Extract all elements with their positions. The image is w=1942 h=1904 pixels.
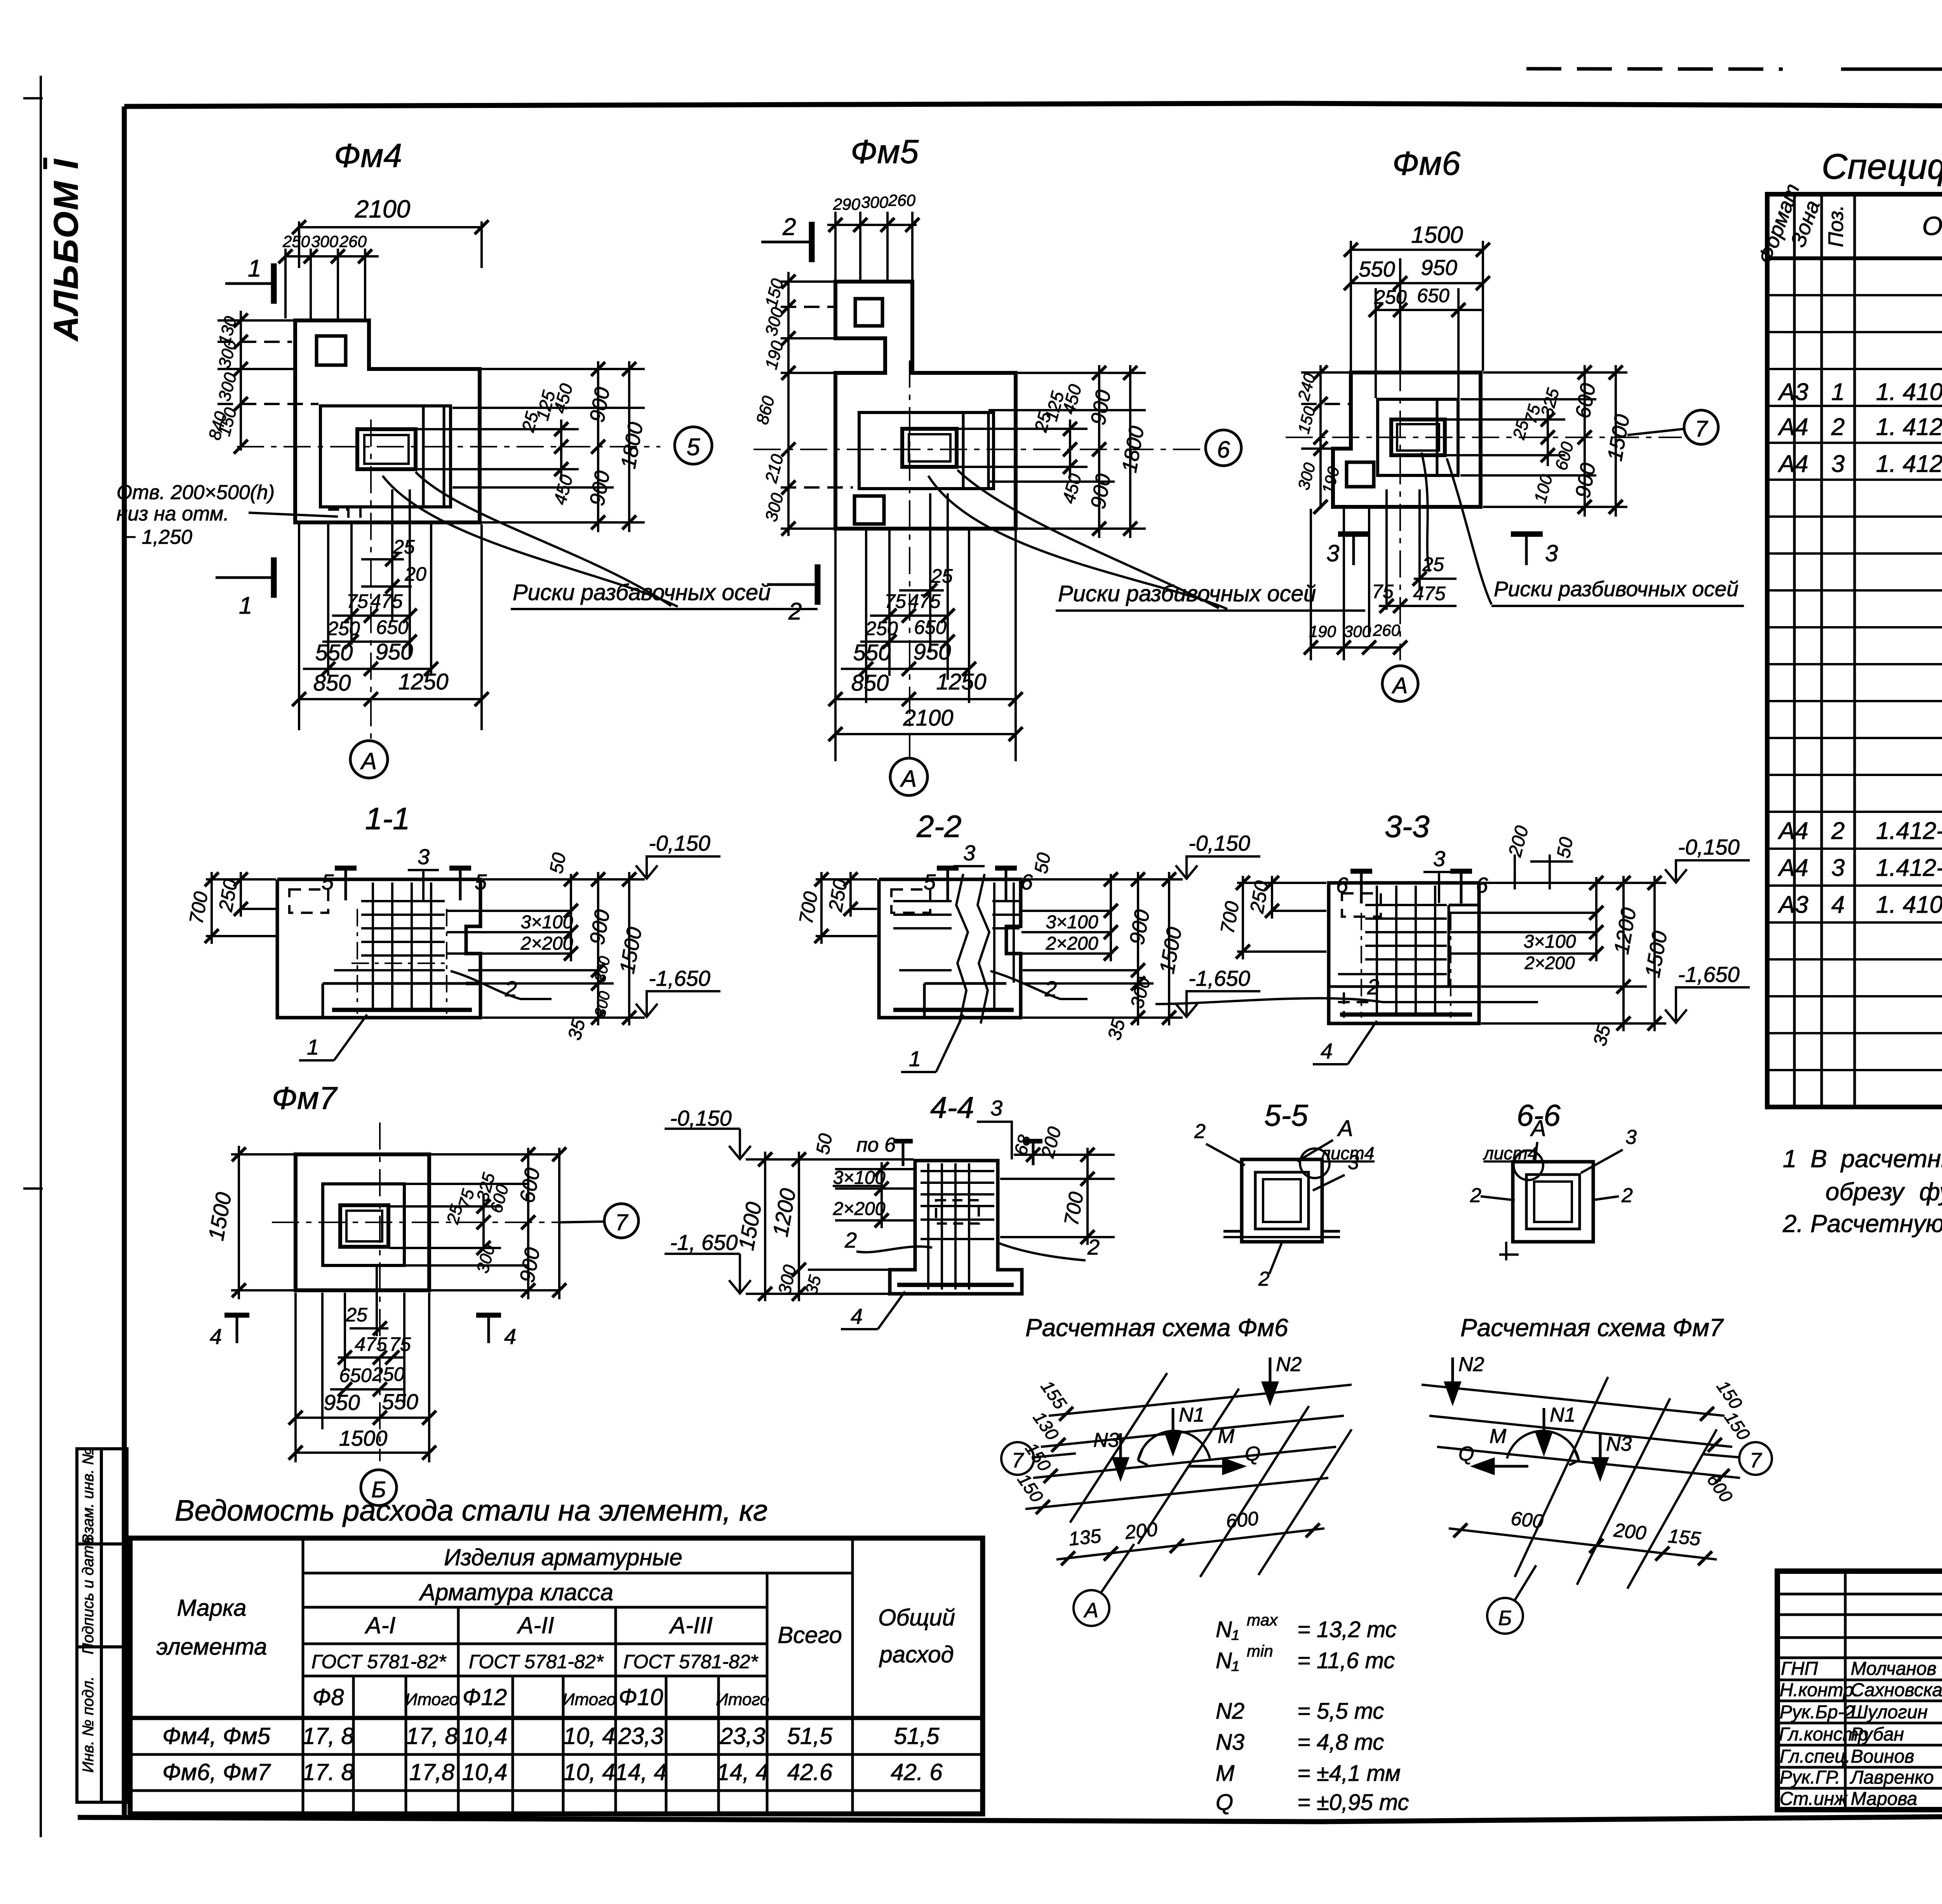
- svg-text:Риски разбивочных осей: Риски разбивочных осей: [1058, 581, 1316, 606]
- 5 flags: [345, 867, 347, 900]
- svg-text:250: 250: [282, 232, 310, 251]
- svg-text:1: 1: [307, 1035, 319, 1059]
- svg-text:лист4: лист4: [1319, 1143, 1374, 1163]
- svg-text:51,5: 51,5: [787, 1723, 833, 1749]
- column pocket: [902, 429, 957, 467]
- svg-text:14, 4: 14, 4: [615, 1759, 666, 1785]
- svg-text:3: 3: [418, 844, 430, 869]
- section outline: [1329, 883, 1479, 1023]
- svg-text:650: 650: [376, 616, 409, 638]
- svg-text:1. 412-1/77, вып.3: 1. 412-1/77, вып.3: [1876, 414, 1942, 440]
- section mark 1 top: [225, 282, 272, 285]
- axis circle 7: [604, 1204, 639, 1238]
- section marks 4: [236, 1314, 238, 1343]
- svg-text:7: 7: [1695, 416, 1709, 442]
- svg-text:Q: Q: [1245, 1443, 1260, 1465]
- break lines: [956, 874, 968, 1023]
- svg-text:950: 950: [914, 639, 951, 665]
- svg-text:= 13,2 тс: = 13,2 тс: [1297, 1617, 1397, 1642]
- svg-text:3: 3: [1545, 540, 1558, 566]
- column pocket: [340, 1205, 388, 1247]
- 1500 1200 dims: [765, 1152, 888, 1301]
- svg-text:50: 50: [546, 851, 570, 875]
- svg-text:2100: 2100: [903, 705, 953, 731]
- rebar mesh: [334, 882, 445, 1010]
- svg-text:2: 2: [782, 214, 796, 240]
- svg-text:550: 550: [853, 640, 891, 665]
- svg-text:850: 850: [313, 670, 351, 696]
- svg-text:Фм5: Фм5: [851, 133, 919, 171]
- svg-text:N2: N2: [1458, 1353, 1484, 1376]
- left dims: [206, 872, 276, 944]
- svg-text:Ведомость расхода стали н: Ведомость расхода стали на элемент, кг: [175, 1494, 767, 1527]
- svg-text:23,3: 23,3: [618, 1723, 664, 1749]
- svg-text:5-5: 5-5: [1264, 1098, 1308, 1132]
- grid lines: [1422, 1385, 1740, 1478]
- load arrows: [1114, 1358, 1277, 1478]
- svg-text:25: 25: [931, 565, 953, 587]
- section outline: [890, 1161, 1022, 1294]
- svg-text:А: А: [1083, 1599, 1098, 1622]
- svg-text:Взам. инв. №: Взам. инв. №: [80, 1448, 97, 1544]
- svg-text:2: 2: [1258, 1268, 1270, 1290]
- svg-text:17, 8: 17, 8: [302, 1723, 354, 1749]
- step rectangle: [1378, 399, 1458, 475]
- svg-text:Сахновская: Сахновская: [1851, 1680, 1942, 1700]
- centerlines: [237, 419, 660, 741]
- svg-text:5: 5: [475, 870, 487, 894]
- svg-text:= 4,8 тс: = 4,8 тс: [1297, 1730, 1384, 1755]
- dashed pocket: [936, 1200, 979, 1224]
- svg-text:Расчетная схема Фм6: Расчетная схема Фм6: [1025, 1314, 1288, 1342]
- right dims: [1449, 855, 1666, 1031]
- svg-text:Воинов: Воинов: [1851, 1746, 1914, 1767]
- svg-text:5: 5: [687, 434, 700, 461]
- bottom dims Фм5: [835, 493, 1016, 761]
- svg-text:Фм6, Фм7: Фм6, Фм7: [162, 1759, 271, 1785]
- section outline: [277, 879, 480, 983]
- svg-text:42. 6: 42. 6: [891, 1759, 943, 1785]
- svg-text:2: 2: [788, 598, 802, 625]
- right dims: [1700, 1407, 1714, 1421]
- bottom dims Фм6: [1311, 489, 1456, 660]
- svg-text:N1: N1: [1179, 1404, 1204, 1426]
- svg-text:min: min: [1247, 1642, 1273, 1660]
- square hole: [317, 336, 346, 365]
- svg-text:1500: 1500: [1411, 222, 1463, 248]
- svg-text:50: 50: [1031, 851, 1055, 875]
- svg-text:3: 3: [1831, 855, 1845, 881]
- svg-text:Итого: Итого: [716, 1690, 769, 1709]
- svg-text:расход: расход: [879, 1641, 954, 1667]
- svg-text:250: 250: [327, 618, 360, 639]
- svg-text:260: 260: [888, 191, 916, 209]
- svg-text:Гл.спец.: Гл.спец.: [1780, 1746, 1850, 1767]
- svg-text:Н.контр.: Н.контр.: [1780, 1680, 1858, 1700]
- svg-text:Рук.ГР.: Рук.ГР.: [1780, 1767, 1840, 1788]
- svg-text:600: 600: [1225, 1507, 1260, 1532]
- svg-text:2×200: 2×200: [1046, 933, 1098, 954]
- svg-text:10,4: 10,4: [462, 1759, 508, 1785]
- svg-text:75: 75: [389, 1333, 411, 1355]
- svg-text:25: 25: [393, 536, 415, 558]
- grid lines (long): [1025, 1385, 1352, 1509]
- slanted lines: [1515, 1377, 1717, 1589]
- svg-text:М: М: [1218, 1425, 1235, 1448]
- svg-text:950: 950: [376, 639, 413, 665]
- section mark 2 top: [761, 241, 810, 244]
- svg-text:14, 4: 14, 4: [717, 1759, 768, 1785]
- svg-text:51,5: 51,5: [894, 1723, 940, 1749]
- centerlines: [753, 360, 1200, 758]
- svg-text:Ф10: Ф10: [619, 1684, 663, 1710]
- svg-text:Б: Б: [1498, 1606, 1512, 1630]
- svg-text:3: 3: [1433, 846, 1445, 871]
- svg-text:10, 4: 10, 4: [563, 1759, 615, 1785]
- svg-text:-1,650: -1,650: [649, 966, 710, 990]
- svg-text:6: 6: [1476, 873, 1488, 897]
- svg-text:3: 3: [1326, 540, 1339, 566]
- svg-text:75: 75: [1372, 581, 1394, 602]
- Отв. note: [117, 481, 275, 548]
- svg-text:4: 4: [504, 1324, 516, 1349]
- right dims: [447, 872, 645, 1025]
- svg-text:1.412-1/77, вып.3: 1.412-1/77, вып.3: [1876, 855, 1942, 881]
- bottom dims: [296, 1266, 429, 1462]
- dashed pocket: [1342, 893, 1381, 917]
- svg-text:Риски разбивочных осей: Риски разбивочных осей: [1494, 577, 1738, 601]
- svg-text:2: 2: [844, 1228, 857, 1252]
- svg-text:850: 850: [851, 670, 889, 696]
- svg-text:-0,150: -0,150: [670, 1106, 732, 1130]
- svg-text:Шулогин: Шулогин: [1851, 1702, 1928, 1723]
- plan outline: [296, 1154, 429, 1290]
- square hole top: [855, 299, 882, 326]
- svg-text:-1,650: -1,650: [1189, 966, 1250, 990]
- svg-text:17,8: 17,8: [409, 1759, 455, 1785]
- svg-text:5: 5: [924, 870, 936, 894]
- svg-text:600: 600: [1510, 1507, 1544, 1532]
- svg-text:75: 75: [884, 590, 906, 612]
- notes text: [1782, 1145, 1942, 1237]
- svg-text:10, 4: 10, 4: [563, 1723, 615, 1749]
- column pocket: [1391, 419, 1445, 455]
- right dims: [390, 1148, 559, 1299]
- svg-text:155: 155: [1667, 1525, 1702, 1550]
- axis circle 7: [1703, 1454, 1739, 1457]
- svg-text:Общий: Общий: [878, 1605, 955, 1631]
- svg-text:Марка: Марка: [177, 1595, 246, 1621]
- 5 flags: [947, 867, 949, 900]
- svg-text:Ф8: Ф8: [312, 1684, 344, 1710]
- svg-text:300: 300: [311, 232, 339, 251]
- svg-text:6: 6: [1217, 437, 1230, 463]
- svg-text:550: 550: [315, 640, 353, 665]
- left dims: [781, 272, 853, 536]
- svg-text:Всего: Всего: [778, 1622, 842, 1648]
- АЛЬБОМ I vertical label: [47, 158, 85, 341]
- svg-text:650: 650: [914, 616, 947, 638]
- svg-text:1. 410-3. вып.1: 1. 410-3. вып.1: [1876, 379, 1942, 406]
- section outline: [879, 879, 1021, 983]
- svg-text:2×200: 2×200: [833, 1199, 886, 1219]
- 700 right dim: [1000, 1148, 1115, 1245]
- svg-text:М: М: [1490, 1425, 1507, 1448]
- svg-text:1: 1: [248, 255, 261, 282]
- square hole bottom: [854, 496, 884, 524]
- step rectangle: [320, 406, 451, 507]
- section mark 3 left: [1352, 533, 1355, 565]
- svg-text:1: 1: [1831, 379, 1845, 406]
- svg-text:Расчетная схема Фм7: Расчетная схема Фм7: [1460, 1314, 1724, 1342]
- svg-text:А: А: [1337, 1116, 1353, 1141]
- svg-text:N3: N3: [1216, 1730, 1244, 1755]
- svg-text:= ±4,1 тм: = ±4,1 тм: [1297, 1761, 1401, 1786]
- axis circle 5: [675, 427, 712, 464]
- svg-text:А-III: А-III: [669, 1612, 713, 1638]
- svg-text:Марова: Марова: [1851, 1789, 1917, 1809]
- svg-text:2: 2: [1194, 1120, 1206, 1143]
- svg-text:1: 1: [909, 1046, 921, 1071]
- svg-text:20: 20: [404, 563, 426, 585]
- svg-text:2: 2: [1831, 414, 1845, 440]
- svg-text:= 5,5 тс: = 5,5 тс: [1297, 1699, 1384, 1724]
- svg-text:7: 7: [1750, 1449, 1762, 1472]
- svg-text:элемента: элемента: [157, 1634, 267, 1660]
- svg-text:3×100: 3×100: [521, 912, 573, 933]
- svg-text:75: 75: [346, 590, 368, 612]
- svg-text:А4: А4: [1777, 451, 1808, 477]
- bottom dim slanted: [1449, 1528, 1717, 1559]
- svg-text:42.6: 42.6: [787, 1759, 833, 1785]
- svg-text:475: 475: [355, 1333, 387, 1355]
- slanted lines: [1070, 1373, 1352, 1577]
- spec header texts: [1754, 181, 1848, 267]
- svg-text:2: 2: [1470, 1184, 1481, 1207]
- svg-text:2: 2: [1831, 818, 1845, 844]
- right dims: [1021, 872, 1183, 1025]
- svg-text:А: А: [1392, 673, 1408, 698]
- sheet left margin line: [23, 76, 43, 1837]
- section mark 1 bottom: [216, 576, 272, 579]
- svg-text:1 В расчетных схемах даны нор: 1 В расчетных схемах даны нормативные на…: [1783, 1145, 1942, 1173]
- axis circle А: [1074, 1590, 1109, 1626]
- right dims: [959, 365, 1146, 538]
- svg-text:М: М: [1216, 1761, 1235, 1786]
- svg-text:6: 6: [1336, 873, 1349, 897]
- svg-text:N2: N2: [1276, 1353, 1302, 1376]
- svg-text:ГОСТ 5781-82*: ГОСТ 5781-82*: [469, 1651, 604, 1673]
- section mark 3 right: [1525, 533, 1528, 565]
- pocket ring: [1513, 1162, 1593, 1242]
- svg-text:Фм4, Фм5: Фм4, Фм5: [162, 1723, 270, 1749]
- svg-text:550: 550: [1359, 257, 1395, 281]
- axis circle A: [890, 758, 927, 795]
- svg-text:50: 50: [1553, 835, 1577, 860]
- svg-text:2100: 2100: [355, 195, 411, 223]
- svg-text:1: 1: [239, 592, 252, 619]
- plan outline: [1333, 372, 1481, 507]
- svg-text:N3: N3: [1606, 1433, 1632, 1455]
- svg-text:200: 200: [1612, 1519, 1647, 1544]
- right dims: [1447, 365, 1627, 517]
- left sidebar stamp boxes: [77, 1449, 127, 1802]
- svg-text:7: 7: [615, 1210, 629, 1235]
- svg-text:Итого: Итого: [405, 1690, 459, 1709]
- rebar: [893, 882, 1020, 1010]
- svg-text:50: 50: [813, 1132, 837, 1156]
- svg-text:3: 3: [1348, 1151, 1359, 1174]
- pocket ring: [1242, 1159, 1322, 1242]
- svg-text:Подпись и дата: Подпись и дата: [80, 1537, 97, 1655]
- svg-text:3×100: 3×100: [1046, 912, 1098, 933]
- svg-text:2: 2: [1621, 1184, 1633, 1207]
- svg-text:Поз.: Поз.: [1824, 205, 1848, 247]
- svg-text:N2: N2: [1216, 1699, 1244, 1724]
- svg-text:= ±0,95 тс: = ±0,95 тс: [1297, 1790, 1409, 1815]
- svg-text:А: А: [900, 766, 917, 792]
- svg-text:Инв. № подл.: Инв. № подл.: [80, 1676, 97, 1773]
- centerlines: [272, 1123, 583, 1461]
- left dims: [218, 311, 318, 451]
- svg-text:650: 650: [1417, 285, 1450, 306]
- svg-text:260: 260: [1373, 621, 1401, 639]
- svg-text:Изделия арматурные: Изделия арматурные: [444, 1544, 682, 1570]
- svg-text:3×100: 3×100: [833, 1168, 886, 1188]
- svg-text:А: А: [360, 748, 377, 774]
- svg-text:Арматура класса: Арматура класса: [419, 1579, 613, 1605]
- svg-text:260: 260: [339, 232, 367, 251]
- svg-text:200: 200: [1124, 1518, 1159, 1544]
- svg-text:Спецификация Фм4 ÷ Фм7: Спецификация Фм4 ÷ Фм7: [1822, 147, 1942, 186]
- svg-text:250: 250: [1374, 286, 1407, 308]
- svg-text:Отв. 200×500(h): Отв. 200×500(h): [117, 481, 275, 504]
- svg-text:N₁: N₁: [1216, 1617, 1239, 1642]
- svg-text:475: 475: [1413, 583, 1446, 604]
- svg-text:250: 250: [372, 1363, 405, 1385]
- svg-text:А-I: А-I: [365, 1612, 396, 1638]
- svg-text:300: 300: [1344, 622, 1371, 640]
- svg-text:290: 290: [833, 195, 861, 213]
- svg-text:4: 4: [1831, 891, 1845, 918]
- left dim 1500: [231, 1146, 294, 1299]
- svg-text:4-4: 4-4: [930, 1090, 974, 1124]
- svg-text:2×200: 2×200: [1524, 953, 1575, 973]
- rebar mesh: [921, 1163, 994, 1290]
- svg-text:1-1: 1-1: [365, 801, 410, 836]
- load arrows: [1446, 1358, 1607, 1478]
- svg-text:обрезу фундамента на отм.-0: обрезу фундамента на отм.-0.150: [1825, 1178, 1942, 1206]
- svg-text:-1,650: -1,650: [1678, 962, 1740, 987]
- svg-text:Б: Б: [371, 1477, 386, 1502]
- svg-text:лист4: лист4: [1483, 1143, 1537, 1163]
- svg-text:550: 550: [382, 1389, 418, 1414]
- spec table grid: [1767, 194, 1942, 1107]
- plan outline: [295, 320, 480, 522]
- svg-text:3: 3: [1625, 1126, 1637, 1149]
- svg-text:4: 4: [210, 1324, 222, 1349]
- svg-text:1250: 1250: [936, 669, 986, 694]
- top dims: [827, 212, 917, 280]
- svg-text:3: 3: [990, 1096, 1002, 1120]
- svg-text:10,4: 10,4: [462, 1723, 508, 1749]
- svg-text:250: 250: [865, 618, 898, 639]
- left rotated dims: [1301, 365, 1350, 509]
- axis circle 7: [1034, 1453, 1076, 1457]
- svg-text:7: 7: [1012, 1449, 1024, 1472]
- plan outline: [835, 282, 1016, 529]
- svg-text:3: 3: [963, 841, 975, 865]
- svg-text:Рук.Бр-2: Рук.Бр-2: [1780, 1702, 1855, 1723]
- svg-text:1. 410-3, вып.1: 1. 410-3, вып.1: [1876, 891, 1942, 918]
- svg-text:А4: А4: [1777, 818, 1808, 844]
- svg-text:1500: 1500: [339, 1426, 388, 1450]
- 6 flags: [1360, 870, 1363, 903]
- svg-text:Рубан: Рубан: [1851, 1724, 1904, 1745]
- svg-text:Обозначение: Обозначение: [1922, 211, 1942, 241]
- bottom dims Фм4: [299, 489, 482, 730]
- axis circle 6: [1206, 430, 1241, 466]
- top dim 2100: [285, 221, 482, 318]
- svg-text:5: 5: [322, 870, 334, 894]
- svg-text:А3: А3: [1777, 379, 1808, 406]
- svg-text:17. 8: 17. 8: [302, 1759, 354, 1785]
- svg-text:по 6: по 6: [856, 1134, 896, 1156]
- svg-text:-0,150: -0,150: [649, 831, 710, 855]
- svg-text:Фм7: Фм7: [272, 1081, 338, 1116]
- axis circle Б: [1487, 1598, 1523, 1634]
- dashed pocket: [891, 889, 930, 913]
- svg-text:ГОСТ 5781-82*: ГОСТ 5781-82*: [623, 1651, 759, 1673]
- svg-text:-0,150: -0,150: [1678, 835, 1740, 859]
- svg-text:190: 190: [1309, 622, 1336, 640]
- svg-text:2. Расчетную схему Фм4, Фм5 с: 2. Расчетную схему Фм4, Фм5 см. лист4.: [1782, 1210, 1942, 1237]
- square hole: [1347, 462, 1374, 487]
- spec body: [1777, 266, 1942, 1101]
- dashed pocket top-left: [289, 889, 328, 913]
- svg-text:N₁: N₁: [1216, 1648, 1239, 1673]
- step rectangle: [323, 1184, 404, 1265]
- rebar mesh: [1338, 886, 1447, 1014]
- svg-text:Итого: Итого: [562, 1690, 616, 1709]
- svg-text:4: 4: [1321, 1039, 1333, 1063]
- svg-text:АЛЬБОМ I: АЛЬБОМ I: [47, 158, 85, 341]
- svg-text:А4: А4: [1777, 414, 1808, 440]
- svg-text:17, 8: 17, 8: [406, 1723, 458, 1749]
- svg-text:А: А: [1530, 1116, 1546, 1141]
- svg-text:Молчанов: Молчанов: [1851, 1659, 1937, 1679]
- step rectangle: [859, 412, 994, 489]
- left dims: [1237, 876, 1326, 959]
- svg-text:Фм6: Фм6: [1392, 145, 1460, 182]
- svg-text:Фм4: Фм4: [334, 137, 402, 174]
- svg-text:N3: N3: [1093, 1429, 1119, 1451]
- svg-text:135: 135: [1068, 1525, 1102, 1550]
- svg-text:3: 3: [1831, 451, 1845, 477]
- svg-text:Лавренко: Лавренко: [1850, 1767, 1934, 1788]
- svg-text:Q: Q: [1458, 1443, 1474, 1465]
- svg-text:4: 4: [851, 1304, 863, 1328]
- svg-text:N1: N1: [1550, 1404, 1575, 1426]
- svg-text:23,3: 23,3: [720, 1723, 766, 1749]
- svg-text:1. 412-1/77, вып.3: 1. 412-1/77, вып.3: [1876, 451, 1942, 477]
- svg-text:-1, 650: -1, 650: [670, 1230, 738, 1255]
- svg-text:− 1,250: − 1,250: [124, 526, 192, 548]
- N values block: [1216, 1611, 1409, 1815]
- column pocket: [357, 429, 416, 469]
- svg-text:1250: 1250: [398, 669, 448, 694]
- axis circle A: [350, 741, 388, 778]
